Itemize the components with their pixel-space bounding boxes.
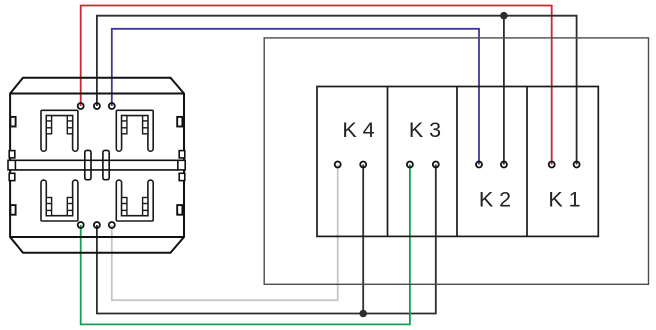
wire black bottom: switch bottom terminal 2 to K3 right: [97, 165, 436, 314]
switch terminal bottom 1: [78, 222, 84, 228]
contact bracket bottom-right: [116, 180, 153, 221]
K4 terminal left: [335, 162, 341, 168]
switch body outline: [10, 78, 184, 253]
side clip upper-left: [10, 117, 15, 127]
svg-text:K 1: K 1: [548, 187, 580, 211]
svg-text:K 3: K 3: [409, 118, 441, 142]
K2 terminal right: [501, 162, 507, 168]
band left tab: [9, 151, 15, 158]
wire red: switch top terminal 1 to K1 left: [81, 6, 552, 165]
middle band: [16, 159, 179, 161]
side clip lower-left: [10, 205, 15, 215]
switch terminal bottom 2: [94, 222, 100, 228]
enclosure: [264, 38, 648, 284]
K2 terminal left: [476, 162, 482, 168]
svg-text:K 2: K 2: [479, 187, 511, 211]
switch body fill: [10, 78, 184, 253]
contact bracket top-left: [41, 110, 78, 151]
K1 terminal right: [574, 162, 580, 168]
contact bracket bottom-left: [41, 180, 78, 221]
junction dot bottom: [359, 310, 367, 318]
switch terminal top 2: [94, 103, 100, 109]
side clip lower-right: [177, 205, 182, 215]
K3 terminal left: [407, 162, 413, 168]
wire green: switch bottom terminal 1 to K3 left: [81, 165, 410, 325]
K1 terminal left: [549, 162, 555, 168]
switch terminal top 1: [78, 103, 84, 109]
band center clip left: [85, 150, 91, 179]
wire blue: switch top terminal 3 to K2 left: [112, 29, 479, 165]
switch terminal top 3: [109, 103, 115, 109]
wire black branch to K4 right: [362, 165, 364, 314]
band center clip right: [103, 150, 109, 179]
junction dot top: [500, 12, 508, 20]
divider K4/K3: [387, 87, 389, 237]
wire gray: switch bottom terminal 3 to K4 left: [112, 165, 338, 301]
K4 terminal right: [360, 162, 366, 168]
switch terminal bottom 3: [109, 222, 115, 228]
divider K2/K1: [526, 87, 528, 237]
K3 terminal right: [433, 162, 439, 168]
side clip upper-right: [177, 117, 182, 127]
svg-text:K 4: K 4: [342, 118, 374, 142]
wire black top: switch top terminal 2 to K1 right: [97, 16, 577, 165]
wire black branch to K2 right: [503, 16, 505, 165]
divider K3/K2: [456, 87, 458, 237]
relay box: [317, 87, 598, 237]
band right tab: [179, 151, 185, 158]
switch top face line: [10, 93, 184, 95]
switch bottom face line: [10, 236, 184, 238]
contact bracket top-right: [116, 110, 153, 151]
